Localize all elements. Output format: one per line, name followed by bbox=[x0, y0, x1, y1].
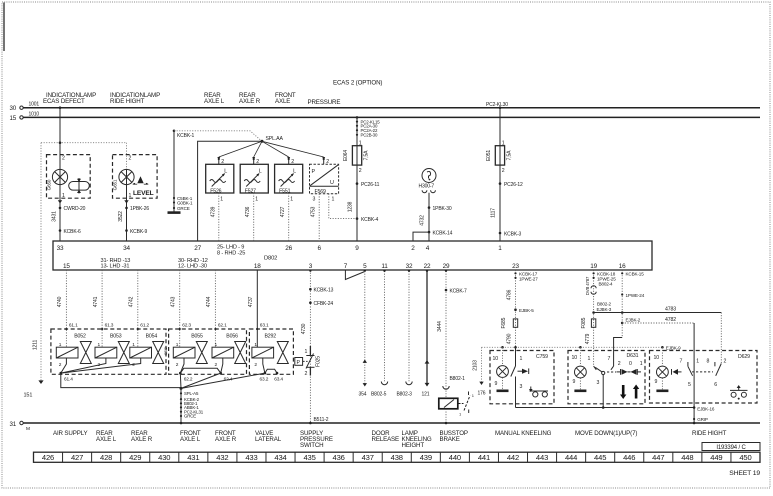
svg-text:3431: 3431 bbox=[52, 211, 58, 222]
svg-text:2103: 2103 bbox=[473, 360, 479, 371]
svg-text:435: 435 bbox=[303, 453, 315, 462]
svg-text:446: 446 bbox=[623, 453, 635, 462]
svg-text:436: 436 bbox=[333, 453, 345, 462]
svg-text:29: 29 bbox=[443, 263, 450, 270]
svg-text:AXLE R: AXLE R bbox=[215, 436, 237, 443]
svg-text:GRIP: GRIP bbox=[697, 417, 708, 422]
svg-text:U: U bbox=[330, 180, 334, 186]
svg-text:4779: 4779 bbox=[585, 333, 591, 344]
svg-text:E051: E051 bbox=[486, 150, 492, 161]
svg-text:RIDE HIGHT: RIDE HIGHT bbox=[692, 430, 727, 437]
svg-text:2: 2 bbox=[62, 156, 65, 162]
svg-text:AXLE: AXLE bbox=[275, 98, 290, 105]
svg-text:CWRD-20: CWRD-20 bbox=[64, 206, 86, 212]
svg-text:2: 2 bbox=[59, 362, 62, 368]
svg-text:2: 2 bbox=[359, 168, 362, 174]
svg-text:LEVEL: LEVEL bbox=[133, 190, 154, 197]
svg-text:2: 2 bbox=[254, 362, 257, 368]
svg-text:I193394 / C: I193394 / C bbox=[716, 445, 746, 451]
svg-text:444: 444 bbox=[565, 453, 577, 462]
svg-text:BRAKE: BRAKE bbox=[440, 436, 460, 443]
svg-text:G651: G651 bbox=[113, 179, 118, 190]
svg-text:4737: 4737 bbox=[248, 296, 254, 307]
svg-text:121: 121 bbox=[422, 392, 430, 398]
svg-text:63.4: 63.4 bbox=[274, 377, 283, 383]
svg-text:432: 432 bbox=[216, 453, 228, 462]
svg-text:SHEET 19: SHEET 19 bbox=[729, 470, 760, 477]
svg-text:2: 2 bbox=[215, 362, 218, 368]
svg-text:EJBK-5: EJBK-5 bbox=[519, 308, 534, 313]
svg-text:1: 1 bbox=[459, 412, 462, 417]
svg-text:3: 3 bbox=[313, 197, 316, 203]
svg-text:B802-3: B802-3 bbox=[397, 392, 413, 398]
svg-text:7,5A: 7,5A bbox=[507, 150, 513, 161]
svg-text:KCBK-7: KCBK-7 bbox=[450, 288, 468, 294]
svg-text:26: 26 bbox=[285, 245, 292, 252]
svg-text:4783: 4783 bbox=[665, 306, 676, 312]
svg-text:B053: B053 bbox=[110, 333, 122, 339]
svg-text:1: 1 bbox=[255, 197, 258, 203]
svg-text:7: 7 bbox=[344, 263, 348, 270]
svg-text:F025: F025 bbox=[316, 356, 322, 367]
svg-text:AIR SUPPLY: AIR SUPPLY bbox=[53, 430, 88, 437]
svg-text:SPL.AA: SPL.AA bbox=[266, 136, 284, 142]
svg-text:8 - RHD -25: 8 - RHD -25 bbox=[217, 251, 245, 257]
svg-text:27: 27 bbox=[194, 245, 201, 252]
svg-text:3444: 3444 bbox=[437, 321, 443, 332]
svg-text:G0BK-1: G0BK-1 bbox=[177, 200, 193, 205]
svg-text:PC26-11: PC26-11 bbox=[361, 182, 380, 188]
svg-text:P: P bbox=[312, 169, 316, 175]
svg-text:AXLE L: AXLE L bbox=[180, 436, 201, 443]
svg-text:KCBK-3: KCBK-3 bbox=[504, 231, 522, 237]
svg-text:MOVE DOWN(1)/UP(7): MOVE DOWN(1)/UP(7) bbox=[575, 430, 637, 437]
svg-text:SPL-A5: SPL-A5 bbox=[184, 391, 199, 396]
svg-text:19: 19 bbox=[590, 263, 597, 270]
svg-text:61.4: 61.4 bbox=[64, 377, 73, 383]
svg-text:4736: 4736 bbox=[245, 206, 251, 217]
svg-text:GRCE: GRCE bbox=[177, 206, 190, 211]
svg-text:61.2: 61.2 bbox=[140, 323, 149, 329]
svg-text:9: 9 bbox=[355, 245, 359, 252]
svg-text:1: 1 bbox=[588, 356, 591, 362]
svg-text:10: 10 bbox=[493, 356, 499, 362]
svg-text:4732: 4732 bbox=[420, 215, 426, 226]
svg-text:62.2: 62.2 bbox=[184, 377, 193, 383]
svg-text:1: 1 bbox=[332, 197, 335, 203]
svg-text:1: 1 bbox=[520, 356, 523, 362]
svg-text:7: 7 bbox=[680, 359, 683, 365]
svg-text:62.1: 62.1 bbox=[218, 323, 227, 329]
svg-text:4743: 4743 bbox=[171, 296, 177, 307]
svg-text:9: 9 bbox=[573, 379, 576, 385]
svg-text:E064: E064 bbox=[343, 150, 349, 161]
svg-text:F527: F527 bbox=[245, 188, 256, 194]
svg-text:KCBK-13: KCBK-13 bbox=[314, 288, 334, 294]
svg-text:7,5A: 7,5A bbox=[364, 150, 370, 161]
svg-text:447: 447 bbox=[652, 453, 664, 462]
svg-text:431: 431 bbox=[187, 453, 199, 462]
svg-text:9: 9 bbox=[655, 379, 658, 385]
svg-text:F085: F085 bbox=[581, 317, 587, 328]
svg-text:1238: 1238 bbox=[348, 201, 354, 212]
svg-text:15: 15 bbox=[10, 115, 17, 122]
svg-text:31: 31 bbox=[10, 421, 17, 428]
svg-text:426: 426 bbox=[42, 453, 54, 462]
svg-text:AXLE R: AXLE R bbox=[131, 436, 153, 443]
svg-text:2: 2 bbox=[411, 245, 415, 252]
svg-text:PC26-12: PC26-12 bbox=[504, 182, 523, 188]
svg-text:3522: 3522 bbox=[118, 211, 124, 222]
svg-text:HEIGHT: HEIGHT bbox=[402, 442, 425, 449]
svg-text:448: 448 bbox=[681, 453, 693, 462]
svg-text:3: 3 bbox=[597, 380, 600, 386]
svg-text:5: 5 bbox=[688, 382, 691, 388]
svg-text:KCBK-4: KCBK-4 bbox=[361, 217, 379, 223]
svg-text:CFBK-24: CFBK-24 bbox=[314, 301, 334, 307]
svg-text:ECAS 2 (OPTION): ECAS 2 (OPTION) bbox=[333, 80, 382, 87]
svg-text:15: 15 bbox=[63, 263, 70, 270]
svg-text:KCBK-6: KCBK-6 bbox=[64, 229, 82, 235]
svg-text:33: 33 bbox=[57, 245, 64, 252]
svg-text:428: 428 bbox=[100, 453, 112, 462]
svg-text:62.3: 62.3 bbox=[182, 323, 191, 329]
svg-text:23: 23 bbox=[512, 263, 519, 270]
svg-text:B802-4: B802-4 bbox=[599, 282, 614, 287]
svg-text:1: 1 bbox=[62, 193, 65, 199]
svg-text:5: 5 bbox=[363, 263, 367, 270]
svg-text:16: 16 bbox=[619, 263, 626, 270]
svg-text:B292: B292 bbox=[265, 333, 277, 339]
svg-text:B055: B055 bbox=[191, 333, 203, 339]
svg-text:ECAS DEFECT: ECAS DEFECT bbox=[43, 98, 85, 105]
svg-text:433: 433 bbox=[245, 453, 257, 462]
svg-text:2: 2 bbox=[305, 371, 308, 377]
svg-text:D631: D631 bbox=[627, 353, 639, 359]
svg-text:1001: 1001 bbox=[29, 102, 40, 108]
svg-text:440: 440 bbox=[449, 453, 461, 462]
svg-text:RELEASE: RELEASE bbox=[372, 436, 400, 443]
svg-text:F526: F526 bbox=[210, 188, 221, 194]
svg-text:176: 176 bbox=[478, 391, 486, 397]
svg-text:C759: C759 bbox=[536, 354, 548, 360]
svg-text:D629: D629 bbox=[738, 354, 750, 360]
svg-text:1: 1 bbox=[696, 359, 699, 365]
svg-text:RIDE HIGHT: RIDE HIGHT bbox=[110, 98, 145, 105]
svg-text:KCBK-9: KCBK-9 bbox=[130, 229, 148, 235]
svg-text:63.2: 63.2 bbox=[260, 377, 269, 383]
svg-text:32: 32 bbox=[406, 263, 413, 270]
svg-text:4: 4 bbox=[426, 245, 430, 252]
svg-text:KCBK-14: KCBK-14 bbox=[433, 230, 453, 236]
svg-text:34: 34 bbox=[123, 245, 130, 252]
svg-text:4744: 4744 bbox=[206, 296, 212, 307]
svg-text:H300-7: H300-7 bbox=[419, 184, 435, 190]
svg-text:434: 434 bbox=[274, 453, 286, 462]
svg-text:430: 430 bbox=[158, 453, 170, 462]
svg-text:B054: B054 bbox=[146, 333, 158, 339]
svg-text:KCBK-1: KCBK-1 bbox=[177, 133, 195, 139]
svg-text:2: 2 bbox=[618, 361, 621, 367]
svg-text:4727: 4727 bbox=[280, 206, 286, 217]
svg-text:B511-2: B511-2 bbox=[314, 417, 329, 423]
svg-text:4740: 4740 bbox=[57, 296, 63, 307]
svg-text:EJBK-2: EJBK-2 bbox=[626, 317, 641, 322]
svg-text:B802-5: B802-5 bbox=[371, 392, 387, 398]
svg-text:18: 18 bbox=[254, 263, 261, 270]
svg-text:EJBK-3: EJBK-3 bbox=[597, 307, 612, 312]
svg-text:4790: 4790 bbox=[506, 333, 512, 344]
svg-text:3: 3 bbox=[309, 263, 313, 270]
svg-text:4782: 4782 bbox=[665, 317, 676, 323]
svg-text:1: 1 bbox=[129, 193, 132, 199]
svg-text:2: 2 bbox=[724, 359, 727, 365]
svg-text:7: 7 bbox=[608, 356, 611, 362]
svg-text:449: 449 bbox=[710, 453, 722, 462]
svg-text:F685: F685 bbox=[501, 317, 507, 328]
svg-text:443: 443 bbox=[536, 453, 548, 462]
svg-text:4753: 4753 bbox=[311, 206, 317, 217]
svg-text:DVB 4787: DVB 4787 bbox=[585, 276, 590, 295]
svg-text:2: 2 bbox=[502, 168, 505, 174]
svg-text:22: 22 bbox=[424, 263, 431, 270]
svg-text:B802-2: B802-2 bbox=[597, 302, 612, 307]
svg-text:1: 1 bbox=[472, 393, 475, 398]
svg-text:437: 437 bbox=[362, 453, 374, 462]
svg-text:1PWE-27: 1PWE-27 bbox=[519, 277, 538, 282]
svg-text:AXLE L: AXLE L bbox=[96, 436, 117, 443]
svg-text:KCBK-15: KCBK-15 bbox=[626, 272, 645, 277]
svg-text:9: 9 bbox=[495, 381, 498, 387]
svg-text:1: 1 bbox=[498, 245, 502, 252]
svg-text:429: 429 bbox=[129, 453, 141, 462]
svg-text:1PBK-30: 1PBK-30 bbox=[433, 206, 452, 212]
svg-text:354: 354 bbox=[359, 392, 367, 398]
svg-text:1: 1 bbox=[640, 361, 643, 367]
svg-text:4730: 4730 bbox=[301, 323, 307, 334]
svg-text:MANUAL KNEELING: MANUAL KNEELING bbox=[495, 430, 552, 437]
svg-text:AXLE R: AXLE R bbox=[239, 98, 261, 105]
svg-text:1: 1 bbox=[220, 197, 223, 203]
svg-text:1PWE-24: 1PWE-24 bbox=[626, 293, 645, 298]
svg-text:1117: 1117 bbox=[491, 208, 497, 218]
svg-text:6: 6 bbox=[714, 382, 717, 388]
svg-text:PC2-KL30: PC2-KL30 bbox=[486, 102, 508, 108]
svg-text:EJBK-16: EJBK-16 bbox=[697, 407, 715, 412]
svg-text:61.3: 61.3 bbox=[105, 323, 114, 329]
svg-text:SWITCH: SWITCH bbox=[300, 442, 324, 449]
svg-text:AXLE L: AXLE L bbox=[204, 98, 225, 105]
svg-text:10: 10 bbox=[572, 355, 578, 361]
svg-text:PC2B-30: PC2B-30 bbox=[361, 133, 378, 138]
svg-text:LATERAL: LATERAL bbox=[255, 436, 282, 443]
svg-text:441: 441 bbox=[478, 453, 490, 462]
svg-text:D802: D802 bbox=[264, 256, 277, 262]
svg-text:1: 1 bbox=[290, 197, 293, 203]
svg-text:2: 2 bbox=[129, 156, 132, 162]
svg-text:1: 1 bbox=[305, 349, 308, 355]
svg-text:6: 6 bbox=[317, 245, 321, 252]
svg-text:30: 30 bbox=[10, 105, 17, 112]
svg-text:EJBK-9: EJBK-9 bbox=[666, 345, 681, 350]
svg-text:450: 450 bbox=[739, 453, 751, 462]
svg-text:1211: 1211 bbox=[33, 340, 39, 351]
svg-text:B802: B802 bbox=[164, 347, 168, 355]
svg-text:G650: G650 bbox=[47, 179, 52, 190]
svg-text:63.1: 63.1 bbox=[260, 323, 269, 329]
svg-text:445: 445 bbox=[594, 453, 606, 462]
svg-text:B802-1: B802-1 bbox=[450, 376, 466, 382]
svg-text:151: 151 bbox=[24, 393, 33, 399]
svg-text:3: 3 bbox=[520, 384, 523, 390]
svg-text:10: 10 bbox=[654, 355, 660, 361]
svg-text:4742: 4742 bbox=[129, 296, 135, 307]
svg-text:11: 11 bbox=[381, 263, 388, 270]
svg-text:61.1: 61.1 bbox=[69, 323, 78, 329]
svg-text:4741: 4741 bbox=[93, 296, 99, 307]
svg-text:4739: 4739 bbox=[210, 206, 216, 217]
svg-text:438: 438 bbox=[391, 453, 403, 462]
svg-text:427: 427 bbox=[71, 453, 83, 462]
svg-text:1010: 1010 bbox=[29, 111, 40, 117]
svg-text:B056: B056 bbox=[226, 333, 238, 339]
svg-text:8: 8 bbox=[707, 359, 710, 365]
svg-text:F569: F569 bbox=[315, 189, 326, 195]
svg-text:12- LHD -30: 12- LHD -30 bbox=[178, 264, 207, 270]
svg-text:13- LHD -31: 13- LHD -31 bbox=[101, 264, 130, 270]
svg-text:442: 442 bbox=[507, 453, 519, 462]
svg-text:0: 0 bbox=[629, 361, 632, 367]
svg-text:B052: B052 bbox=[74, 333, 86, 339]
svg-text:M: M bbox=[26, 426, 30, 432]
svg-text:GRCE: GRCE bbox=[184, 414, 196, 419]
svg-text:439: 439 bbox=[420, 453, 432, 462]
svg-text:1PBK-26: 1PBK-26 bbox=[130, 206, 149, 212]
svg-text:2: 2 bbox=[176, 362, 179, 368]
svg-text:PRESSURE: PRESSURE bbox=[308, 99, 341, 106]
svg-text:4786: 4786 bbox=[506, 289, 512, 300]
